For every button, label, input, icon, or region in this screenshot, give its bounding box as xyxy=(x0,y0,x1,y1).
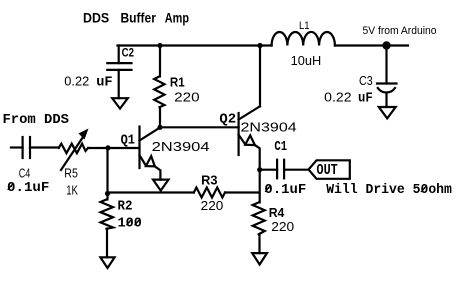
svg-text:R5: R5 xyxy=(64,166,78,181)
node dot R1/Q1 collector xyxy=(157,125,162,130)
node dot rail/Q2 collector xyxy=(257,43,262,48)
resistor R1 xyxy=(154,46,199,127)
svg-text:0.22: 0.22 xyxy=(324,91,351,105)
node dot R2/R3 xyxy=(105,191,110,196)
svg-text:C4: C4 xyxy=(19,166,31,181)
svg-text:Q1: Q1 xyxy=(121,132,135,148)
svg-text:OUT: OUT xyxy=(317,162,338,179)
svg-text:0.1uF: 0.1uF xyxy=(7,180,49,196)
svg-text:C1: C1 xyxy=(274,139,287,155)
connector OUT tag xyxy=(309,160,350,179)
slashed zero marks (mono font style) xyxy=(8,183,427,225)
wire input left xyxy=(11,146,23,148)
node dot rail/C3 xyxy=(382,41,390,49)
wire emitter node down to R4 xyxy=(259,170,261,203)
ground (R2) xyxy=(100,257,114,268)
title DDS Buffer Amp xyxy=(83,10,189,26)
svg-text:0.1uF: 0.1uF xyxy=(264,182,306,198)
ground (R4) xyxy=(252,253,267,264)
svg-text:1K: 1K xyxy=(66,183,78,198)
ground (Q1 emitter) xyxy=(153,180,169,191)
capacitor C1 xyxy=(264,139,308,198)
resistor R4 xyxy=(253,202,295,253)
wire R2 node to R3 xyxy=(108,191,194,193)
svg-text:220: 220 xyxy=(201,199,224,213)
wire Q1 collector node to Q2 base xyxy=(160,126,239,128)
svg-text:C2: C2 xyxy=(122,45,135,59)
transistor Q2 xyxy=(219,46,296,170)
label From DDS xyxy=(3,112,70,128)
inductor L1 xyxy=(272,20,335,68)
svg-text:uF: uF xyxy=(96,75,112,91)
svg-text:220: 220 xyxy=(271,220,294,234)
svg-text:C3: C3 xyxy=(359,74,373,88)
capacitor C3 xyxy=(324,46,396,108)
svg-text:Q2: Q2 xyxy=(219,112,236,128)
wire node A down to R2/R3 node xyxy=(106,148,108,194)
capacitor C2 xyxy=(64,45,134,98)
svg-text:DDS: DDS xyxy=(83,10,109,26)
svg-text:2N3904: 2N3904 xyxy=(152,140,210,154)
svg-text:5V from Arduino: 5V from Arduino xyxy=(363,25,437,37)
resistor R2 xyxy=(101,194,142,258)
resistor R5 (variable) xyxy=(59,129,140,198)
svg-text:10uH: 10uH xyxy=(291,53,322,68)
wire emitter node to C1 xyxy=(260,169,277,171)
ground (C3) xyxy=(379,107,396,118)
svg-text:0.22: 0.22 xyxy=(64,75,89,89)
svg-text:Buffer: Buffer xyxy=(121,10,157,26)
svg-text:220: 220 xyxy=(174,90,199,104)
label 5V from Arduino xyxy=(363,25,437,37)
ground (C2) xyxy=(112,98,128,108)
node dot A (input/Q1 base/R2) xyxy=(105,145,110,150)
node dot Q2 emitter/C1/R4 xyxy=(257,167,262,172)
svg-text:From DDS: From DDS xyxy=(3,112,70,128)
svg-text:R4: R4 xyxy=(269,206,285,220)
svg-text:R1: R1 xyxy=(170,76,185,90)
svg-text:uF: uF xyxy=(358,90,373,106)
capacitor C4 xyxy=(7,137,59,196)
svg-text:100: 100 xyxy=(118,216,142,232)
svg-text:L1: L1 xyxy=(299,20,310,32)
svg-text:R3: R3 xyxy=(201,173,217,187)
svg-text:Amp: Amp xyxy=(165,10,189,26)
label Will Drive 50ohm xyxy=(326,182,452,198)
transistor Q1 xyxy=(121,127,210,180)
svg-text:2N3904: 2N3904 xyxy=(241,121,297,135)
wire top rail left (C2 to L1) xyxy=(118,44,272,46)
svg-text:Will Drive 50ohm: Will Drive 50ohm xyxy=(326,182,452,198)
resistor R3 xyxy=(194,173,259,213)
wire top rail right (L1 to stub end) xyxy=(335,44,408,46)
node dot rail/R1 xyxy=(157,43,162,48)
svg-text:R2: R2 xyxy=(118,199,133,215)
